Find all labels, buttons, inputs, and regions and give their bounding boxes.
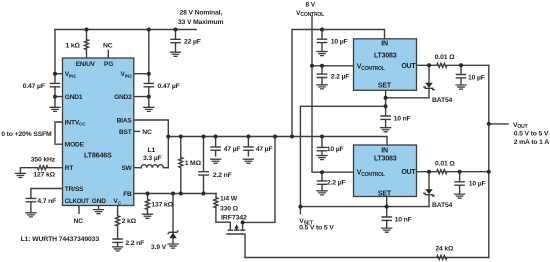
- ground at GND pin: [98, 206, 100, 210]
- junction: VIN2 pin node: [147, 72, 151, 76]
- junction: rail / C 10uF in2: [320, 135, 324, 139]
- wire: 8V VCONTROL line: [312, 16, 354, 172]
- capacitor C_IN1 10uF: [317, 30, 326, 51]
- wire: SW to L1: [134, 167, 142, 169]
- svg-text:LT3083: LT3083: [374, 155, 397, 162]
- svg-text:33 V Maximum: 33 V Maximum: [178, 19, 224, 26]
- ground below GND2: [144, 107, 154, 111]
- transistor Q1 source leg: [241, 222, 245, 230]
- capacitor C_IN2 10uF: [317, 137, 326, 155]
- junction: SET1 node / VSET wire: [384, 104, 388, 108]
- ground below 137k: [143, 214, 153, 218]
- ground below GND1: [50, 107, 60, 111]
- junction: FB node / zener D1: [171, 192, 175, 196]
- wire: bottom rail: [245, 257, 489, 259]
- junction: VCONTROL1 node / 8V line: [310, 64, 314, 68]
- ground below zener: [168, 244, 178, 248]
- junction: 28V rail / VIN2 drop: [147, 28, 151, 32]
- junction: GND2 pin node: [147, 95, 151, 99]
- IC U1 LT8646S body: [63, 58, 134, 206]
- svg-text:SET: SET: [378, 190, 392, 197]
- svg-text:OUT: OUT: [401, 63, 416, 70]
- wire: 28V top rail: [55, 29, 196, 31]
- svg-text:NC: NC: [142, 129, 152, 136]
- junction: OUT2 row / VOUT rail: [487, 170, 491, 174]
- wire: TR/SS to cap: [31, 189, 63, 213]
- wire: VIN2/GND2 drop: [134, 30, 149, 107]
- junction: VOUT node: [487, 122, 491, 126]
- junction: OUT2 node / C 10uF: [458, 170, 462, 174]
- wire: PG NC stub: [107, 50, 109, 58]
- capacitor C_VC 2.2nF plates: [113, 239, 122, 242]
- junction: VIN1 pin node: [53, 72, 57, 76]
- diode D3 BAT54 triangle: [425, 189, 432, 194]
- IC U3 LT3083 body: [354, 145, 417, 197]
- svg-text:IN: IN: [381, 41, 388, 48]
- svg-text:8 V: 8 V: [305, 2, 315, 9]
- zener D1 3.9V wire: [172, 194, 174, 244]
- wire: left drop from rail to VIN1/GND1: [55, 30, 63, 107]
- svg-text:10 nF: 10 nF: [395, 216, 412, 223]
- ground below 22uF: [171, 52, 181, 56]
- svg-text:SET: SET: [378, 83, 392, 90]
- resistor R_RT 127k: [20, 166, 62, 173]
- svg-text:GND: GND: [92, 198, 106, 205]
- svg-text:BAT54: BAT54: [432, 97, 453, 104]
- junction: Q1 source node: [241, 220, 245, 224]
- svg-text:47 µF: 47 µF: [256, 146, 273, 153]
- capacitor C_SET2 10nF plates: [382, 217, 391, 220]
- svg-text:10 µF: 10 µF: [327, 146, 344, 153]
- wire: OUT1 row with R 0.01: [417, 63, 489, 67]
- wire: buck output rail: [168, 137, 387, 146]
- junction: VCONTROL1 node / C 2.2uF: [320, 64, 324, 68]
- wire: SET2 row: [300, 206, 429, 208]
- svg-text:GND2: GND2: [114, 94, 132, 101]
- svg-text:EN/UV: EN/UV: [76, 61, 96, 68]
- wire: OUT2 row with R 0.01: [417, 170, 489, 174]
- svg-text:10 µF: 10 µF: [331, 38, 348, 45]
- svg-text:28 V Nominal,: 28 V Nominal,: [180, 9, 223, 16]
- junction: 28V rail / R1 1k: [85, 28, 89, 32]
- svg-text:IRF7342: IRF7342: [221, 214, 247, 221]
- svg-text:FB: FB: [123, 191, 132, 198]
- svg-text:137 kΩ: 137 kΩ: [151, 201, 173, 208]
- junction: rail / riser to IN1: [290, 135, 294, 139]
- wire: BAT54 D3 branch: [428, 172, 430, 207]
- ground below 4.7nF: [26, 213, 36, 217]
- IC U3 pin labels: [357, 147, 417, 197]
- resistor R_VC 2k: [116, 206, 120, 247]
- svg-text:0 to +20% SSFM: 0 to +20% SSFM: [1, 131, 52, 138]
- svg-text:L1: WURTH 74437349033: L1: WURTH 74437349033: [21, 236, 100, 243]
- zener D1 bar with bent ends: [168, 231, 178, 234]
- svg-text:2.2 nF: 2.2 nF: [213, 172, 232, 179]
- svg-text:OUT: OUT: [401, 169, 416, 176]
- svg-text:3.9 V: 3.9 V: [151, 244, 167, 251]
- svg-text:BAT54: BAT54: [432, 202, 453, 209]
- svg-text:0.01 Ω: 0.01 Ω: [435, 160, 455, 167]
- junction: VSET node: [298, 205, 302, 209]
- svg-text:10 nF: 10 nF: [394, 115, 411, 122]
- svg-text:3.3 µF: 3.3 µF: [143, 155, 162, 162]
- capacitor C_SS 4.7nF plates: [26, 198, 35, 201]
- inductor L1 3.3uH: [141, 165, 163, 168]
- junction: buck output rail / L1-BIAS: [166, 135, 170, 139]
- svg-text:24 kΩ: 24 kΩ: [435, 245, 454, 252]
- svg-text:127 kΩ: 127 kΩ: [33, 172, 55, 179]
- svg-text:330 Ω: 330 Ω: [220, 205, 239, 212]
- svg-text:VOUT: VOUT: [513, 122, 528, 130]
- wire: BAT54 D2 branch: [386, 65, 429, 98]
- svg-text:1/4 W: 1/4 W: [220, 195, 238, 202]
- capacitor C_VIN2 0.47uF plates: [144, 83, 153, 86]
- junction: OUT1 node / BAT54: [427, 63, 431, 67]
- capacitor C_VIN1 0.47uF plates: [50, 83, 59, 86]
- svg-text:1 kΩ: 1 kΩ: [66, 42, 81, 49]
- svg-text:LT8646S: LT8646S: [84, 151, 112, 160]
- wire: SET1 pin down: [385, 90, 387, 127]
- junction: OUT2 node / BAT54: [427, 170, 431, 174]
- svg-text:1 MΩ: 1 MΩ: [185, 160, 202, 167]
- svg-text:10 µF: 10 µF: [469, 180, 486, 187]
- wire: L1 to output rail: [163, 167, 168, 169]
- capacitor C_OUT2 47uF: [244, 137, 253, 156]
- svg-text:BST: BST: [119, 129, 132, 136]
- svg-text:0.47 µF: 0.47 µF: [23, 83, 45, 90]
- diode D2 BAT54 triangle: [425, 83, 432, 88]
- wire: FB row: [134, 193, 216, 195]
- resistor R_G 330: [214, 194, 230, 223]
- svg-text:L1: L1: [148, 147, 156, 154]
- svg-text:VCONTROL: VCONTROL: [296, 10, 324, 18]
- wire: INTVCC to MODE loop: [55, 122, 63, 144]
- wire: BST NC stub: [134, 130, 140, 132]
- svg-text:PG: PG: [104, 61, 113, 68]
- wire: SET2 pin down: [386, 197, 388, 228]
- capacitor C_VC2 2.2uF: [317, 172, 326, 190]
- capacitor C_VC1 2.2uF: [317, 66, 326, 84]
- resistor R_FB_TOP 1M: [179, 137, 183, 194]
- junction: SET1 node / BAT54 wire: [384, 96, 388, 100]
- svg-text:LT3083: LT3083: [374, 52, 397, 59]
- capacitor C_O2 10uF: [455, 172, 464, 194]
- capacitor C_O1 10uF: [456, 65, 465, 84]
- svg-text:MODE: MODE: [65, 142, 85, 149]
- svg-text:0.5 V to 5 V: 0.5 V to 5 V: [514, 131, 549, 138]
- junction: 28V rail / C 22uF: [174, 28, 178, 32]
- wire: right rail VOUT: [489, 65, 508, 257]
- svg-text:350 kHz: 350 kHz: [31, 156, 56, 163]
- svg-text:2.2 µF: 2.2 µF: [327, 179, 346, 186]
- IC U2 LT3083 body: [354, 39, 417, 91]
- svg-text:0.5 V to 5 V: 0.5 V to 5 V: [299, 224, 334, 231]
- transistor Q1 IRF7342 gate leg: [228, 222, 232, 230]
- svg-text:2 mA to 1 A: 2 mA to 1 A: [514, 139, 549, 146]
- junction: FB node / R 137k: [146, 192, 150, 196]
- wire: source to rail drop: [243, 137, 275, 223]
- svg-text:2.2 nF: 2.2 nF: [125, 240, 144, 247]
- junction: FB node / R 1M bottom: [179, 192, 183, 196]
- wire: CLKOUT NC stub: [78, 206, 80, 214]
- capacitor C_IN 22uF: [171, 30, 180, 52]
- wire: VSET stub: [299, 207, 301, 214]
- junction: IN1 wire / C 10uF in1: [320, 28, 324, 32]
- resistor R_SET 24k: [437, 256, 447, 260]
- junction: OUT1 node / C 10uF: [459, 63, 463, 67]
- ground at RT: [15, 173, 25, 177]
- junction: rail / C 2.2nF: [202, 135, 206, 139]
- IC U2 pin labels: [357, 41, 417, 90]
- svg-text:2 kΩ: 2 kΩ: [122, 218, 137, 225]
- svg-text:4.7 nF: 4.7 nF: [37, 198, 56, 205]
- resistor R_FB_BOT 137k: [146, 194, 150, 214]
- svg-text:10 µF: 10 µF: [468, 74, 485, 81]
- capacitor C_SET1 10nF plates: [381, 116, 390, 119]
- junction: rail / Q1 source drop: [273, 135, 277, 139]
- svg-text:BIAS: BIAS: [117, 117, 133, 124]
- svg-text:CLKOUT: CLKOUT: [65, 198, 89, 205]
- svg-text:22 µF: 22 µF: [184, 38, 201, 45]
- svg-text:0.01 Ω: 0.01 Ω: [435, 54, 455, 61]
- junction: rail / C 47uF b: [246, 135, 250, 139]
- diode D2 BAT54 schottky bar: [424, 87, 434, 90]
- transistor Q1 body arrow leg: [235, 228, 239, 230]
- svg-text:SW: SW: [121, 165, 132, 172]
- zener D1 triangle: [169, 232, 176, 238]
- svg-text:47 µF: 47 µF: [224, 146, 241, 153]
- svg-text:TR/SS: TR/SS: [65, 186, 84, 193]
- wire: BIAS to rail riser: [134, 120, 169, 168]
- ground below C_VC: [113, 247, 123, 251]
- svg-text:0.47 µF: 0.47 µF: [158, 83, 180, 90]
- svg-text:RT: RT: [65, 165, 74, 172]
- svg-text:NC: NC: [103, 42, 113, 49]
- junction: SET2 pin node: [385, 205, 389, 209]
- junction: rail / R 1M: [179, 135, 183, 139]
- svg-text:NC: NC: [74, 218, 84, 225]
- svg-text:GND1: GND1: [65, 94, 83, 101]
- wire: rail riser to IN1: [292, 30, 385, 137]
- svg-text:IN: IN: [381, 147, 388, 154]
- junction: FB node / C 2.2nF bottom: [202, 192, 206, 196]
- IC U1 pin labels: [65, 61, 133, 206]
- junction: VCONTROL2 node / C 2.2uF: [320, 170, 324, 174]
- junction: rail / C 47uF a: [214, 135, 218, 139]
- diode D3 BAT54 schottky bar: [424, 193, 434, 196]
- capacitor C_FF 2.2nF: [199, 137, 208, 194]
- junction: GND1 pin node: [53, 95, 57, 99]
- resistor R_EN 1k: [85, 30, 89, 59]
- svg-text:2.2 µF: 2.2 µF: [331, 73, 350, 80]
- wire: drain bus to bottom rail: [227, 234, 245, 258]
- wire: SET1 to VSET line: [300, 106, 385, 206]
- capacitor C_OUT1 47uF: [211, 137, 220, 156]
